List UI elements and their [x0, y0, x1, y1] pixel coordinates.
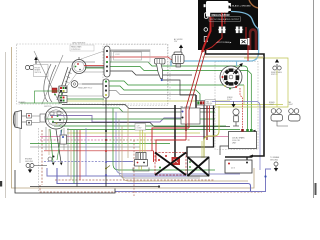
svg-text:GROUP: GROUP: [206, 104, 213, 106]
svg-text:GROUND: GROUND: [270, 159, 279, 161]
svg-text:LIGHT: LIGHT: [288, 104, 293, 106]
svg-text:HEADLAMP HI/LO: HEADLAMP HI/LO: [78, 87, 93, 90]
svg-text:JCT.: JCT.: [231, 168, 235, 170]
svg-text:GROUND: GROUND: [25, 161, 34, 163]
svg-text:SWITCH: SWITCH: [35, 72, 42, 74]
svg-text:PLUG: PLUG: [227, 99, 232, 101]
svg-text:▶ BLACK = GROUND: ▶ BLACK = GROUND: [230, 4, 251, 7]
svg-text:JUNCTION BOX: JUNCTION BOX: [72, 43, 86, 45]
svg-text:LEGEND: LEGEND: [18, 102, 26, 104]
svg-text:CONTROLS: CONTROLS: [71, 49, 81, 51]
svg-text:LIGHT: LIGHT: [269, 104, 274, 106]
svg-text:IGNITION: IGNITION: [44, 106, 52, 108]
svg-text:+12V TO REG ▶: +12V TO REG ▶: [216, 41, 232, 44]
svg-text:12V DC REGULATED OUTPUT: 12V DC REGULATED OUTPUT: [210, 18, 240, 21]
svg-text:TAIL LIGHT: TAIL LIGHT: [180, 106, 190, 109]
svg-text:CONV: CONV: [137, 128, 143, 130]
